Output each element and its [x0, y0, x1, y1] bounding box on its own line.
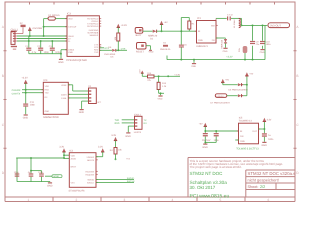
power flag VBUS +5V [28, 27, 42, 31]
svg-text:3.3V: 3.3V [59, 146, 64, 149]
wire 5V to IC5 in [205, 127, 238, 133]
capacitor C13 [214, 133, 219, 141]
wire D- [17, 40, 67, 42]
junction cap C2 tap [40, 40, 42, 42]
svg-text:LMR62421: LMR62421 [196, 45, 208, 48]
junction caps gnd [204, 141, 206, 143]
junction rail-C6 [180, 59, 182, 61]
wire F1 to IC3 REGIN [55, 18, 67, 20]
diode D7 [210, 94, 243, 104]
wire vdd rail left [16, 157, 64, 159]
wire caps gnd [205, 137, 216, 144]
svg-text:GND: GND [45, 110, 49, 112]
junction in cap 1 [204, 130, 206, 132]
svg-text:TXD: TXD [45, 92, 49, 94]
wire RTS stub [99, 47, 104, 49]
svg-text:TXD: TXD [94, 51, 98, 53]
wire C10 stubs [262, 25, 264, 49]
wire to D6 [223, 83, 238, 85]
svg-text:D6 PMEG2010AEH: D6 PMEG2010AEH [228, 89, 247, 91]
microcontroller IC2 STM32 [69, 150, 98, 192]
svg-text:D-: D- [68, 40, 70, 42]
svg-text:SC?: SC? [97, 101, 101, 103]
svg-text:VDDIO2: VDDIO2 [87, 156, 95, 158]
junction cap bank drop [30, 157, 32, 159]
polyfuse F2 above USB [18, 22, 26, 33]
svg-text:+3.3V: +3.3V [121, 24, 127, 27]
svg-text:IC4: IC4 [44, 79, 48, 82]
svg-text:+5V: +5V [199, 123, 203, 125]
svg-text:+5V/USB: +5V/USB [32, 27, 42, 30]
junction vdd pins [63, 154, 65, 156]
junction cap C3 tap [51, 40, 53, 42]
op-amp/bridge IC3 CP2102N [65, 13, 101, 62]
wire SWDIO [96, 179, 134, 181]
svg-text:CTS: CTS [94, 44, 98, 46]
power flag 3V3 input caps [199, 123, 207, 127]
junction R13 gnd [160, 92, 162, 94]
svg-text:VBUS: VBUS [68, 35, 74, 37]
junction C6 branch [180, 30, 182, 32]
svg-text:R13: R13 [162, 82, 166, 84]
wire D5 to net label [116, 49, 127, 51]
svg-text:ON: ON [240, 135, 243, 137]
svg-text:3.3V: 3.3V [98, 146, 103, 149]
svg-text:100n: 100n [14, 171, 19, 173]
wire C9 stubs [252, 25, 254, 59]
jumper JP3 reset [136, 43, 153, 54]
wire CAN TX [22, 92, 43, 94]
wire 3V3 rail [242, 24, 268, 26]
wire caps bottom rail [17, 177, 50, 183]
svg-text:D+: D+ [68, 38, 71, 40]
junction boot0 [115, 158, 117, 160]
svg-text:3.3V: 3.3V [111, 134, 116, 137]
ground GND10 [262, 142, 267, 147]
svg-text:CP2102N-QFN28: CP2102N-QFN28 [66, 59, 87, 62]
capacitor C7 bootstrap [227, 14, 233, 21]
svg-text:OUT: OUT [252, 130, 257, 132]
wire R4 to BOOT0 [115, 154, 117, 159]
svg-text:100n: 100n [268, 138, 273, 141]
svg-text:VDD: VDD [68, 18, 72, 20]
svg-text:10u/16V: 10u/16V [202, 139, 211, 142]
capacitor C16 [28, 171, 34, 177]
svg-text:D1: D1 [150, 37, 153, 40]
svg-text:TOLW95-3.3: TOLW95-3.3 [239, 120, 252, 123]
net flag agnd [45, 175, 62, 178]
resistor R4 [110, 148, 122, 155]
wire IC5 gnd stub [235, 139, 238, 141]
svg-text:F2: F2 [20, 22, 23, 25]
svg-text:BOOT0: BOOT0 [87, 159, 94, 161]
wire JP1 txd [122, 119, 135, 121]
wire VBUS sense to IC3 [44, 26, 67, 28]
svg-text:PA14/SW: PA14/SW [85, 174, 94, 176]
svg-text:PB8: PB8 [126, 158, 130, 160]
junction VBUS-sense [43, 26, 45, 28]
wire cap bank vertical c15 [16, 158, 18, 182]
svg-text:STM32 NT DOC: STM32 NT DOC [190, 171, 223, 176]
capacitor C17 [38, 171, 44, 177]
svg-text:PA13/SW: PA13/SW [85, 171, 94, 173]
wire cap C2 stub [40, 41, 42, 48]
svg-text:SUSPENDB: SUSPENDB [87, 32, 98, 34]
svg-text:GPIO.1: GPIO.1 [92, 21, 99, 23]
capacitor C12 [202, 133, 211, 141]
svg-text:USB-5V: USB-5V [216, 95, 223, 97]
svg-text:SMAJ5.0A: SMAJ5.0A [160, 48, 170, 50]
svg-text:C11: C11 [30, 101, 34, 104]
svg-text:C: C [296, 123, 298, 127]
svg-text:IC3: IC3 [67, 13, 71, 16]
ground GND7 [79, 109, 84, 114]
junction L1 out [241, 24, 243, 26]
capacitor C1 [25, 45, 36, 54]
wire CAN RX [22, 89, 43, 91]
svg-text:3V3-OUT: 3V3-OUT [270, 25, 281, 28]
junction rail-gnd [193, 59, 195, 61]
wire diode outputs [243, 76, 247, 96]
diode D2 catch [221, 39, 227, 48]
title license text [190, 160, 284, 169]
power flag 3V3 vddio [98, 146, 104, 152]
svg-text:22u: 22u [256, 43, 260, 45]
svg-text:GND: GND [47, 184, 52, 187]
diode D6 [228, 83, 247, 91]
svg-text:TOLW95-3.3ICTF13: TOLW95-3.3ICTF13 [236, 147, 259, 150]
resistor R13 [157, 82, 166, 89]
svg-text:The project web page is at www: The project web page is at www.stm32. [190, 166, 242, 169]
svg-text:GND: GND [240, 140, 245, 142]
svg-text:GND: GND [260, 51, 265, 53]
svg-text:R4: R4 [110, 149, 113, 151]
svg-text:GND: GND [191, 65, 196, 67]
svg-text:WAKEUP: WAKEUP [90, 34, 99, 36]
junction IC5 out [263, 128, 265, 130]
svg-text:GND: GND [158, 98, 163, 100]
svg-text:4: 4 [172, 198, 174, 202]
svg-text:Schaltplan v3.30a: Schaltplan v3.30a [190, 180, 228, 185]
svg-text:DTR: DTR [121, 48, 126, 50]
svg-text:D7 PMEG2010AEH: D7 PMEG2010AEH [210, 102, 229, 104]
svg-text:4u7: 4u7 [28, 171, 32, 173]
wire D1 to IC1 IN [157, 30, 197, 32]
wire R13 top stub [158, 76, 160, 82]
svg-text:3.3TOUT: 3.3TOUT [68, 26, 76, 28]
svg-text:SN65HVD230: SN65HVD230 [43, 116, 59, 119]
power flag 3V3 boot divider [139, 69, 144, 73]
junction VBUS-arrow [29, 35, 31, 37]
svg-text:TX7/GPIO.2: TX7/GPIO.2 [87, 23, 98, 25]
wire F1 branch vertical [43, 19, 45, 36]
capacitor C6 [179, 44, 187, 48]
node UART labels JP1 [115, 119, 120, 125]
svg-text:GND: GND [198, 39, 203, 41]
junction diode-or [246, 84, 248, 86]
svg-text:RXD: RXD [115, 122, 120, 125]
svg-text:B: B [296, 74, 298, 78]
svg-text:+5V: +5V [225, 79, 229, 81]
svg-text:C1: C1 [25, 45, 28, 47]
capacitor C11 [23, 101, 35, 106]
wire 3V3 to R2 [117, 28, 119, 34]
wire input cap branch [181, 18, 189, 60]
svg-text:GNDA: GNDA [68, 49, 74, 51]
ground GND8 [125, 132, 130, 137]
power flag +3V3 pullup [117, 24, 127, 28]
junction C9 gnd [252, 59, 254, 61]
svg-text:C2: C2 [37, 45, 40, 47]
svg-text:R1: R1 [192, 23, 195, 25]
svg-text:2: 2 [76, 198, 78, 202]
svg-text:R14: R14 [147, 72, 151, 74]
svg-text:RXD: RXD [45, 89, 49, 91]
capacitor C14 [262, 133, 273, 140]
svg-text:CAN-TX: CAN-TX [12, 93, 21, 96]
svg-text:C3: C3 [49, 45, 52, 47]
svg-text:D: D [2, 171, 4, 175]
svg-text:22u: 22u [238, 48, 240, 52]
svg-text:IN: IN [198, 30, 200, 32]
svg-text:GND: GND [79, 111, 84, 114]
wire X1 gnd pin [82, 101, 89, 109]
svg-text:+5V: +5V [249, 73, 253, 75]
svg-text:IC2: IC2 [69, 150, 73, 153]
power flag 3V3 mcu left [59, 146, 65, 152]
svg-text:6: 6 [268, 198, 270, 202]
wire D+ [17, 38, 67, 40]
wire bootstrap [216, 17, 227, 19]
svg-text:1.2k: 1.2k [162, 85, 166, 87]
svg-text:SWCLK: SWCLK [87, 182, 94, 184]
svg-text:C10: C10 [266, 41, 270, 43]
svg-text:GND: GND [125, 135, 130, 138]
svg-text:STM32 NT DOC v320a.s: STM32 NT DOC v320a.s [248, 172, 296, 177]
wire caps bottom bus [29, 51, 61, 54]
frame border [2, 2, 299, 202]
ground GND11 [47, 182, 52, 187]
svg-text:C5: C5 [163, 42, 166, 44]
svg-text:NRST: NRST [71, 166, 76, 168]
capacitor C9 [250, 41, 259, 46]
ground GND5 [158, 95, 163, 100]
svg-text:A: A [296, 25, 298, 29]
fuse F1 [48, 14, 60, 20]
svg-text:CANH: CANH [61, 94, 67, 96]
power flag VDD or-ed [245, 72, 253, 76]
wire VBUS stem [29, 30, 31, 36]
svg-text:+3.3V: +3.3V [174, 74, 180, 76]
svg-text:F1 500mA: F1 500mA [49, 14, 60, 17]
svg-text:SW: SW [211, 25, 215, 27]
power flag +5V usb prot [221, 79, 229, 83]
wire IC5 out [259, 122, 265, 134]
resistor R14 series [147, 72, 154, 81]
svg-text:PCI www.0815.eu: PCI www.0815.eu [190, 193, 230, 199]
svg-text:A: A [2, 25, 4, 29]
svg-text:+5V: +5V [164, 21, 168, 23]
junction gnd bus [60, 53, 62, 55]
svg-text:+3.3V: +3.3V [21, 76, 27, 79]
wire IC3 gnd pin [61, 49, 67, 51]
svg-text:100n: 100n [38, 171, 43, 173]
svg-text:GND: GND [262, 144, 267, 147]
jumper JP2 power source [135, 28, 143, 37]
svg-text:MBR120: MBR120 [221, 40, 223, 49]
svg-text:3.3V: 3.3V [267, 119, 272, 122]
diode D5 1N4148 [104, 46, 116, 58]
junction cap C1 tap [28, 40, 30, 42]
power flag 3V3 boot [111, 134, 117, 140]
ground GND4 [191, 60, 196, 68]
svg-text:+3.3V: +3.3V [226, 55, 232, 58]
junction c17 branch [30, 170, 32, 172]
wire tag to D7 [227, 95, 238, 97]
svg-text:1N4148WS: 1N4148WS [104, 53, 115, 55]
wire c17 branch [31, 171, 42, 174]
wire long 3V3 return rail [167, 25, 265, 59]
svg-text:IC5: IC5 [239, 117, 243, 120]
svg-text:10k: 10k [114, 37, 116, 41]
svg-text:IN: IN [240, 130, 242, 132]
junction DTR [117, 49, 119, 51]
op-amp IC1 LMR62421 regulator [195, 17, 218, 47]
power flag +5V input [160, 21, 168, 25]
svg-text:GND: GND [149, 51, 154, 53]
svg-text:AVDD: AVDD [71, 158, 76, 160]
transistor/transceiver IC4 SN65HVD230 [42, 79, 71, 119]
svg-text:3.3V: 3.3V [139, 69, 141, 73]
svg-text:VREF: VREF [61, 84, 66, 86]
capacitor C15 [14, 171, 19, 177]
svg-text:C6: C6 [184, 44, 187, 46]
svg-text:VDD: VDD [45, 86, 49, 88]
svg-text:BATT: BATT [136, 34, 142, 37]
junction in cap 2 [215, 130, 217, 132]
svg-text:RS: RS [45, 96, 48, 98]
svg-text:SWDIO: SWDIO [87, 179, 94, 181]
svg-text:STM32F042F6: STM32F042F6 [69, 189, 85, 192]
wire VBUS rail [17, 35, 67, 37]
svg-text:CAN-RX: CAN-RX [12, 89, 21, 92]
wire IC3 TXD to LED [99, 49, 112, 51]
junction boot mid [167, 75, 169, 77]
svg-text:L1 10uH: L1 10uH [233, 20, 235, 28]
net tag USB5V [215, 94, 227, 98]
svg-text:IC1: IC1 [197, 17, 201, 20]
svg-text:3: 3 [124, 198, 126, 202]
net flag 3V3 out [268, 23, 290, 28]
connector JP1 [134, 113, 147, 133]
wire cap C1 stub [28, 36, 30, 48]
svg-text:C: C [2, 123, 4, 127]
wire 3V3 elbow [142, 73, 147, 76]
wire vddio elbow [96, 152, 103, 157]
svg-text:SWDIO: SWDIO [127, 177, 135, 179]
svg-text:UART3: UART3 [134, 131, 141, 133]
svg-text:SUSPEND: SUSPEND [89, 29, 99, 31]
ground GND9 [202, 144, 207, 149]
wire +5V stem [161, 25, 163, 32]
junction VBUS-F1 [43, 35, 45, 37]
svg-text:B: B [2, 74, 4, 78]
wire SW diode branch [216, 38, 226, 48]
wire JP1 rxd [122, 122, 135, 124]
ground GND6 [23, 114, 28, 119]
svg-text:RTS: RTS [94, 46, 98, 48]
svg-text:VDD: VDD [71, 155, 75, 157]
svg-text:PA+/GPIO.0: PA+/GPIO.0 [87, 18, 98, 20]
wire BOOT0 net [154, 75, 180, 77]
wire VREF to X1 [68, 85, 88, 91]
svg-text:TXD: TXD [115, 119, 120, 122]
capacitor C3 [49, 45, 61, 54]
svg-text:SWCLK: SWCLK [127, 180, 135, 182]
wire JP2 to D1 [143, 30, 153, 32]
wire 3V3 to R4 [115, 141, 117, 148]
power flag 3V3 out [263, 118, 272, 122]
connector X1 [88, 85, 101, 103]
svg-text:C7 1n: C7 1n [227, 14, 233, 16]
junction R13 tap [158, 75, 160, 77]
wire 3V3 drop to cap [25, 83, 27, 114]
wire R2 to DTR net [117, 41, 119, 50]
junction C8 gnd [244, 59, 246, 61]
svg-text:1u: 1u [268, 134, 271, 137]
wire SWCLK [96, 181, 134, 183]
capacitor C2 [37, 45, 49, 54]
wire cap C3 stub [51, 41, 53, 48]
svg-text:RX7/GPIO.3: RX7/GPIO.3 [87, 26, 98, 28]
svg-text:Sheet:: Sheet: [248, 185, 259, 189]
svg-text:GND: GND [58, 61, 63, 64]
capacitor C8 tantalum [238, 46, 247, 60]
svg-text:D: D [296, 171, 298, 175]
wire to fuse F1 [44, 18, 48, 20]
resistor R1 [188, 21, 195, 29]
connector CN1 USB [11, 29, 18, 50]
svg-text:10k: 10k [118, 149, 122, 151]
ground GND3 [260, 49, 265, 54]
svg-text:AGND: AGND [53, 176, 59, 178]
svg-text:RTS: RTS [105, 47, 109, 49]
diode D1 MBR120 [148, 30, 157, 40]
ground GND1 [58, 59, 63, 64]
svg-text:C9: C9 [256, 41, 259, 43]
svg-text:X1: X1 [88, 85, 91, 88]
svg-text:FB: FB [212, 39, 215, 41]
title block [188, 158, 295, 198]
junction vdd can 2 [25, 92, 27, 94]
wire bootstrap to SW node [231, 18, 242, 25]
svg-text:CANL: CANL [61, 97, 66, 99]
svg-text:MBR120: MBR120 [148, 35, 157, 38]
power flag 3V3 CAN [21, 76, 27, 83]
wire vdd elbow [63, 152, 69, 159]
title sheet field [248, 185, 266, 189]
svg-text:100n: 100n [30, 104, 35, 107]
svg-text:GND: GND [223, 50, 228, 52]
svg-text:TX: TX [144, 119, 147, 121]
svg-text:VSS: VSS [71, 182, 75, 184]
wire CANL to X1 [68, 97, 88, 99]
svg-text:30. Okt 2017: 30. Okt 2017 [190, 185, 216, 190]
svg-text:100n: 100n [266, 43, 271, 45]
capacitor C5 TVS bar [160, 42, 170, 51]
wire R13 bottom [159, 90, 164, 96]
junction C9 [252, 24, 254, 26]
